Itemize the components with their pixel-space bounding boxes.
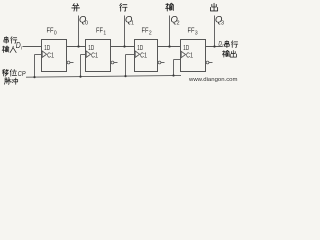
svg-text:C1: C1 <box>91 52 98 59</box>
svg-text:2: 2 <box>177 20 180 26</box>
svg-text:2: 2 <box>149 30 152 36</box>
svg-text:3: 3 <box>221 20 224 26</box>
svg-text:CP: CP <box>18 71 26 78</box>
svg-text:1: 1 <box>103 30 106 36</box>
svg-text:FF: FF <box>96 28 103 35</box>
svg-text:1D: 1D <box>137 45 143 52</box>
svg-text:FF: FF <box>47 28 54 35</box>
svg-text:FF: FF <box>142 28 149 35</box>
svg-text:3: 3 <box>195 30 198 36</box>
svg-text:FF: FF <box>188 28 195 35</box>
svg-text:1D: 1D <box>88 45 94 52</box>
svg-text:C1: C1 <box>47 52 54 59</box>
svg-text:1: 1 <box>131 20 134 26</box>
svg-text:1D: 1D <box>183 45 189 52</box>
svg-text:C1: C1 <box>186 53 193 60</box>
svg-text:www.diangon.com: www.diangon.com <box>189 77 238 83</box>
svg-text:1D: 1D <box>44 45 50 52</box>
svg-text:I: I <box>21 46 22 51</box>
svg-text:C1: C1 <box>140 52 147 59</box>
svg-text:0: 0 <box>85 20 88 26</box>
svg-text:0: 0 <box>54 30 57 36</box>
